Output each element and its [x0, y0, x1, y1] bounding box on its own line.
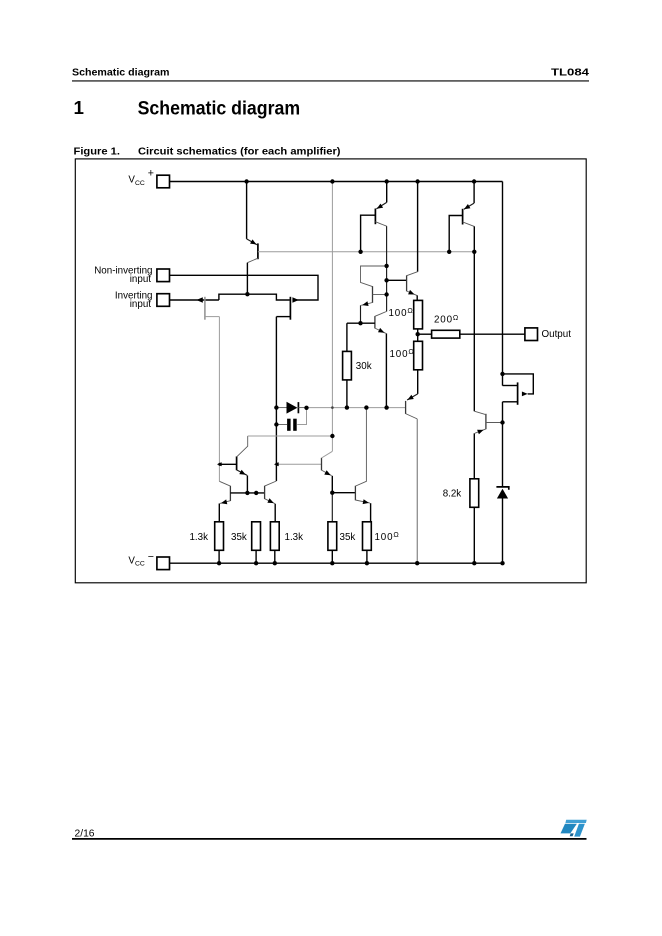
- wire Q2 collector column: [386, 226, 388, 311]
- svg-text:1: 1: [74, 97, 84, 118]
- wire bias rail (gray): [258, 251, 474, 253]
- svg-text:2/16: 2/16: [75, 828, 96, 839]
- diode D1: [276, 402, 306, 414]
- svg-text:200Ω: 200Ω: [434, 313, 459, 326]
- svg-text:35k: 35k: [231, 532, 247, 543]
- wire J1 drain (gray): [218, 317, 220, 482]
- svg-text:input: input: [130, 299, 152, 310]
- transistor Q10: [406, 394, 418, 563]
- wire inverting input: [170, 299, 219, 301]
- resistor 30k with label: [343, 323, 372, 407]
- svg-text:−: −: [148, 551, 154, 563]
- terminal Vcc- with label: [128, 551, 169, 569]
- wire Vcc+ to Q6 collector: [417, 182, 419, 272]
- svg-text:35k: 35k: [340, 532, 356, 543]
- node Q7 base junction: [500, 420, 504, 424]
- ST logo: [561, 820, 587, 837]
- wire Vcc- bottom rail: [170, 562, 503, 564]
- node diode cathode junction: [304, 406, 308, 410]
- node mirror link junction: [330, 434, 334, 438]
- node compensation row junctions: [331, 405, 389, 409]
- node Q8 emitter junction: [330, 491, 334, 495]
- node Q5 emitter junction: [358, 321, 362, 325]
- node diode anode junction: [274, 405, 278, 409]
- transistor Q13: [265, 481, 277, 522]
- wire output: [460, 333, 525, 335]
- node J2 drain junction: [274, 462, 279, 466]
- svg-text:1.3k: 1.3k: [285, 532, 304, 543]
- wire J2 drain: [275, 317, 277, 481]
- transistor Q2 (PNP mirror): [361, 182, 387, 252]
- transistor Q7: [474, 411, 502, 479]
- svg-text:+: +: [148, 168, 154, 180]
- transistor Q1 (PNP current source): [247, 182, 258, 295]
- capacitor C1: [274, 408, 306, 431]
- wire tail (differential pair source): [219, 294, 290, 300]
- svg-text:Figure 1.: Figure 1.: [74, 146, 121, 157]
- transistor Q9: [355, 408, 370, 522]
- svg-text:Output: Output: [542, 329, 572, 340]
- resistor 1.3k (left) with label: [189, 522, 223, 563]
- footer rule: [72, 838, 587, 840]
- svg-text:Schematic diagram: Schematic diagram: [138, 97, 301, 119]
- transistor Q5: [361, 266, 387, 323]
- wire non-inverting input: [170, 275, 319, 300]
- transistor Q11 (mirror left): [219, 436, 247, 493]
- svg-text:VCC: VCC: [128, 555, 144, 567]
- svg-text:Schematic diagram: Schematic diagram: [72, 67, 170, 78]
- terminal Output with label: [525, 328, 571, 341]
- wire Vcc+ top rail: [170, 181, 503, 183]
- node tail junction: [245, 292, 249, 296]
- wire gray column from Vcc+: [331, 182, 333, 452]
- wire Q4 base / 30k node: [347, 322, 375, 324]
- node mirror base junctions: [245, 491, 258, 495]
- svg-text:Circuit schematics (for each a: Circuit schematics (for each amplifier): [138, 146, 341, 157]
- svg-text:30k: 30k: [356, 361, 372, 372]
- resistor 100ohm lower with label: [390, 341, 423, 394]
- node bottom rail junctions: [217, 561, 505, 565]
- transistor J2 input JFET (non-inverting side): [276, 297, 298, 320]
- node J1 drain junction: [217, 462, 222, 466]
- wire mirror base row: [230, 492, 264, 494]
- resistor 35k (right) with label: [328, 522, 355, 563]
- wire Q9 base: [332, 492, 355, 494]
- header rule: [72, 80, 589, 82]
- svg-text:TL084: TL084: [551, 67, 590, 78]
- resistor 35k (left) with label: [231, 522, 261, 563]
- transistor Q6 (driver): [387, 272, 418, 301]
- transistor Q8 (mirror right): [276, 451, 332, 522]
- resistor 200ohm with label: [418, 313, 460, 338]
- svg-text:VCC: VCC: [128, 175, 144, 187]
- svg-text:100Ω: 100Ω: [375, 530, 400, 543]
- node bias rail junctions: [358, 250, 476, 254]
- resistor 100ohm (bottom) with label: [363, 522, 400, 563]
- svg-text:8.2k: 8.2k: [443, 488, 462, 499]
- svg-text:100Ω: 100Ω: [390, 347, 415, 360]
- svg-text:input: input: [130, 274, 152, 285]
- node output divider junction: [416, 332, 420, 336]
- svg-text:100Ω: 100Ω: [389, 306, 414, 319]
- transistor Q12: [219, 481, 231, 522]
- transistor J1 input JFET (inverting side): [196, 297, 219, 320]
- figure frame: [75, 159, 586, 583]
- diode D2 (zener): [496, 487, 508, 563]
- node Q2 collector junctions: [384, 264, 388, 297]
- svg-text:1.3k: 1.3k: [189, 532, 208, 543]
- terminal Vcc+ with label: [128, 168, 169, 188]
- transistor J3 output JFET: [500, 372, 533, 487]
- transistor Q3 (PNP mirror): [449, 182, 474, 252]
- node top rail junctions: [244, 179, 476, 183]
- terminal Inverting input with label: [115, 291, 170, 310]
- wire Q3 collector down: [473, 226, 475, 411]
- transistor Q4: [375, 312, 387, 408]
- resistor 8.2k with label: [443, 479, 479, 563]
- wire mirror collector link (gray): [248, 435, 333, 437]
- wire compensation row (gray): [307, 407, 406, 409]
- terminal Non-inverting input with label: [94, 266, 169, 285]
- resistor 100ohm upper with label: [389, 300, 423, 341]
- wire Vcc+ right column: [502, 182, 504, 386]
- resistor 1.3k (right) with label: [270, 522, 303, 563]
